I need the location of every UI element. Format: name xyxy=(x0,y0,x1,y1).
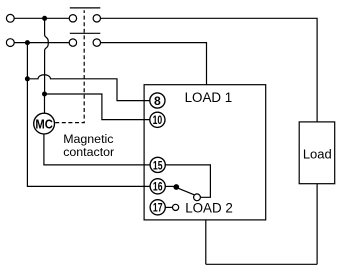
wire: node C to terminal 8 (bump hop over MC branch) xyxy=(30,75,150,101)
timer unit box U1 xyxy=(144,85,266,220)
contact K2 (magnetic contactor NO contact, line 2) xyxy=(69,33,100,46)
wire: node A down to node D (jog hop over line2) xyxy=(45,18,49,94)
svg-text:LOAD 1: LOAD 1 xyxy=(185,90,233,105)
svg-text:8: 8 xyxy=(154,94,161,108)
terminal 16 xyxy=(150,179,165,194)
svg-text:MC: MC xyxy=(35,116,53,131)
terminal 15 xyxy=(150,157,165,172)
wire: terminal 16 to switch pivot xyxy=(165,185,174,187)
contact K1 (magnetic contactor NO contact, line 1) xyxy=(69,8,100,22)
terminal T2 (power input, line 2) xyxy=(6,39,14,47)
wire: terminal 15 to NO contact point xyxy=(165,165,211,197)
coil MC (magnetic contactor coil) xyxy=(34,113,55,134)
terminal 10 xyxy=(150,112,165,127)
node B (junction on line2) xyxy=(25,40,30,45)
wire: line2 from T2 to contact K2 xyxy=(14,42,69,44)
wire: node C down to terminal 16 xyxy=(27,79,150,187)
mechanical linkage (dashed) from MC coil to contacts xyxy=(55,10,84,122)
node A (junction on line1) xyxy=(42,16,47,21)
wire: node D down to MC coil xyxy=(44,94,46,113)
svg-text:10: 10 xyxy=(153,113,163,127)
wire: timer box bottom to return rail xyxy=(205,220,207,264)
wire: line1 from K1 to Load box top xyxy=(101,18,318,122)
svg-text:contactor: contactor xyxy=(63,145,114,159)
switch pivot (common, filled dot) xyxy=(173,184,179,190)
wire: node B down to node C xyxy=(26,43,28,79)
contact point at 17 (open circle) xyxy=(173,204,179,210)
wire: node D to terminal 10 xyxy=(45,94,150,120)
svg-text:Load: Load xyxy=(303,147,332,162)
load box (external Load) xyxy=(299,122,335,184)
wire: terminal 17 stub xyxy=(165,206,173,208)
svg-text:LOAD 2: LOAD 2 xyxy=(185,200,233,215)
contact point (NO, open circle) xyxy=(194,194,201,201)
node C (junction, branch to terminal 8) xyxy=(25,76,30,81)
terminal T1 (power input, line 1) xyxy=(6,14,14,22)
svg-text:15: 15 xyxy=(153,158,163,172)
wire: bottom return rail xyxy=(206,263,317,265)
wire: MC coil bottom to terminal 15 xyxy=(44,134,150,165)
svg-text:17: 17 xyxy=(153,201,163,215)
switch arm SW1 (16 common to NO contact) xyxy=(177,188,195,195)
wire: return rail up to Load box bottom xyxy=(316,184,318,265)
wire: line1 from T1 to contact K1 xyxy=(14,17,69,19)
label: Magnetic contactor xyxy=(63,132,114,159)
terminal 17 xyxy=(150,200,165,215)
svg-text:16: 16 xyxy=(153,180,163,194)
svg-text:Magnetic: Magnetic xyxy=(63,132,113,146)
terminal 8 xyxy=(150,93,165,108)
node D (junction, branch to terminal 10) xyxy=(42,92,47,97)
wire: line2 from K2 to timer box top xyxy=(101,43,207,85)
